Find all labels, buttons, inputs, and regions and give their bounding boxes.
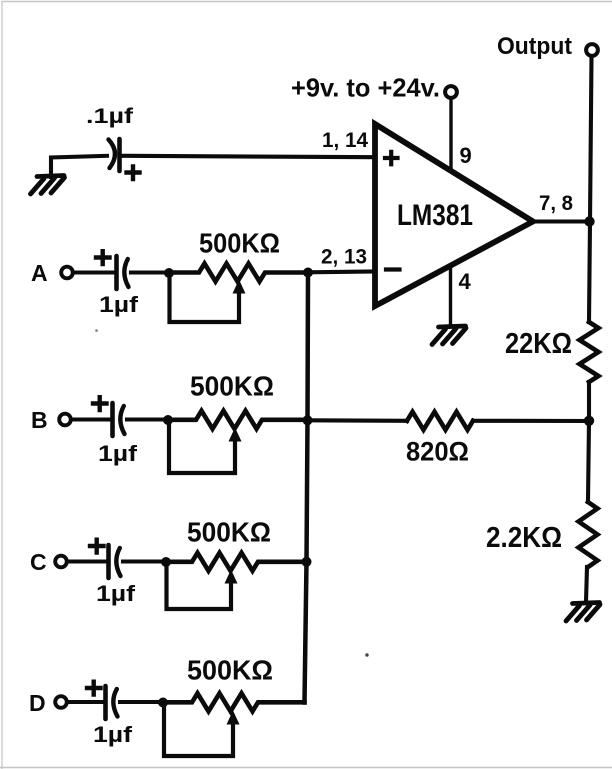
resistor 2.2K zigzag (579, 502, 598, 567)
wire output terminal to output node (590, 56, 592, 221)
junction B (163, 415, 173, 425)
wire ground corner to capacitor C0 (51, 156, 107, 177)
wire 820 to feedback node (473, 419, 589, 423)
supply terminal circle (445, 86, 457, 98)
svg-text:7, 8: 7, 8 (539, 192, 573, 215)
junction bus-C (302, 557, 312, 567)
svg-text:Output: Output (497, 33, 572, 60)
R4 wiper arrow head (227, 711, 240, 725)
wire D terminal to C4 (67, 700, 104, 704)
svg-text:500KΩ: 500KΩ (190, 371, 274, 402)
svg-text:2, 13: 2, 13 (321, 246, 367, 269)
capacitor C0 .1uf curved plate (109, 140, 116, 169)
wire output node down to 22K (589, 222, 590, 323)
R4 wiper feedback loop (164, 704, 233, 756)
junction bus-B (303, 415, 313, 425)
R1 wiper arrow head (233, 280, 246, 294)
capacitor C2 curved plate (120, 406, 124, 434)
svg-text:500KΩ: 500KΩ (187, 655, 273, 686)
svg-text:500KΩ: 500KΩ (187, 517, 271, 548)
input terminal D (55, 696, 67, 708)
input terminal A (61, 267, 73, 279)
potentiometer R1 500K zigzag (169, 264, 308, 282)
page border left (1, 1, 3, 769)
wire 2.2K to ground (586, 567, 587, 602)
R2 wiper feedback loop (169, 422, 235, 473)
wire supply to pin 9 (449, 98, 452, 168)
resistor 820 zigzag (407, 412, 473, 430)
junction D (158, 698, 168, 708)
R3 wiper feedback loop (167, 564, 232, 609)
wire 22K to feedback node (587, 382, 591, 421)
R3 wiper arrow head (225, 570, 238, 584)
capacitor C4 polarity plus (87, 682, 101, 695)
wire op-amp output to node (533, 219, 590, 223)
summing bus vertical (305, 272, 309, 703)
svg-text:1µf: 1µf (93, 722, 133, 747)
output terminal circle (586, 44, 598, 56)
wire feedback node down to 2.2K (588, 421, 589, 502)
potentiometer R2 500K zigzag (168, 411, 308, 429)
svg-text:1µf: 1µf (98, 441, 138, 466)
page border top (2, 1, 612, 3)
ground (output divider) (566, 603, 600, 622)
svg-text:4: 4 (459, 269, 472, 294)
capacitor C1 polarity plus (96, 251, 110, 264)
svg-text:2.2KΩ: 2.2KΩ (486, 522, 562, 554)
wire A terminal to C1 (73, 270, 115, 274)
R2 wiper arrow head (229, 428, 242, 442)
potentiometer R3 500K zigzag (166, 553, 306, 571)
svg-text:.1µf: .1µf (86, 105, 134, 128)
svg-text:C: C (30, 549, 47, 575)
stray speck (365, 653, 368, 656)
ground (input bias) (31, 176, 65, 195)
junction feedback node (584, 416, 594, 426)
op-amp minus input marker (386, 267, 400, 271)
R1 wiper feedback loop (170, 275, 240, 322)
svg-text:A: A (31, 260, 48, 286)
capacitor C4 curved plate (113, 689, 117, 717)
wire pin 4 to ground (449, 266, 452, 326)
junction C (161, 557, 171, 567)
capacitor C1 curved plate (124, 259, 128, 287)
junction bus-A (303, 268, 313, 278)
svg-text:LM381: LM381 (397, 199, 473, 232)
capacitor C3 polarity plus (90, 540, 104, 553)
wire C4 to junction (120, 700, 163, 704)
input terminal C (55, 556, 67, 568)
svg-text:D: D (29, 690, 46, 716)
capacitor C3 curved plate (116, 548, 120, 576)
op-amp plus input marker (385, 152, 398, 165)
wire B terminal to C2 (71, 417, 111, 421)
op-amp U1 LM381 triangle (375, 124, 533, 306)
junction output node (584, 216, 594, 226)
capacitor C0 polarity plus (127, 167, 140, 180)
potentiometer R4 500K zigzag (163, 693, 305, 711)
capacitor C4 straight plate (103, 686, 108, 719)
input terminal B (59, 414, 71, 426)
capacitor C2 polarity plus (93, 397, 107, 410)
wire bus to op-amp minus input (308, 269, 375, 274)
svg-text:1µf: 1µf (99, 292, 139, 317)
wire C3 to junction (123, 559, 166, 563)
wire C0 to op-amp plus input (122, 156, 375, 157)
wire C1 to junction (131, 270, 169, 274)
capacitor C2 straight plate (110, 403, 115, 436)
capacitor C0 .1uf straight plate (117, 139, 122, 171)
page border bottom (0, 767, 612, 769)
svg-text:9: 9 (460, 143, 472, 168)
capacitor C3 straight plate (106, 545, 111, 578)
ground (pin 4) (432, 326, 466, 345)
resistor 22K zigzag (580, 322, 599, 382)
svg-text:1µf: 1µf (96, 581, 136, 606)
svg-text:1, 14: 1, 14 (322, 129, 368, 152)
stray speck (95, 329, 98, 332)
svg-text:22KΩ: 22KΩ (505, 328, 572, 360)
svg-text:B: B (31, 407, 48, 433)
wire C2 to junction (127, 417, 168, 421)
wire C terminal to C3 (67, 559, 107, 563)
svg-text:500KΩ: 500KΩ (199, 228, 280, 259)
junction A (164, 268, 174, 278)
svg-text:820Ω: 820Ω (406, 437, 469, 467)
capacitor C1 straight plate (114, 256, 119, 289)
820 resistor row: wire B bus to 820 (308, 418, 407, 423)
svg-text:+9v. to +24v.: +9v. to +24v. (291, 73, 440, 103)
